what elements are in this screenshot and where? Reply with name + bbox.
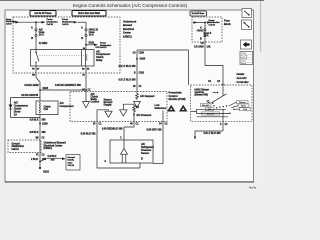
svg-text:Cell 10: Cell 10 — [209, 25, 216, 27]
svg-text:Center: Center — [123, 31, 131, 35]
svg-text:Relay: Relay — [96, 58, 103, 62]
wire clutch ground — [39, 115, 41, 141]
contact line 1 — [197, 108, 227, 110]
svg-text:12 RED: 12 RED — [39, 41, 48, 45]
svg-text:Cell 10: Cell 10 — [62, 24, 69, 26]
arrow fuse2 branch — [94, 44, 98, 47]
node fuse1 tap — [35, 21, 37, 23]
svg-text:S102: S102 — [89, 41, 95, 45]
svg-text:A: A — [31, 26, 33, 30]
svg-text:(UBEC): (UBEC) — [123, 34, 132, 38]
PCM 5v resistor — [133, 104, 136, 116]
arrow feed1 — [16, 21, 20, 24]
svg-text:Block: Block — [224, 22, 231, 26]
svg-text:Supply: Supply — [104, 103, 113, 107]
node fuse2 splice — [85, 44, 87, 46]
svg-text:4baTa: 4baTa — [249, 186, 257, 190]
diode D1 line — [10, 98, 12, 118]
svg-text:Cell 10: Cell 10 — [100, 47, 107, 49]
svg-text:Module (PCM): Module (PCM) — [169, 97, 186, 101]
PCM relay driver triangle — [83, 102, 90, 108]
svg-text:G102: G102 — [43, 170, 50, 174]
svg-text:Underhood: Underhood — [123, 20, 137, 24]
svg-text:Compressor: Compressor — [60, 104, 74, 108]
node relay sw contact — [35, 52, 36, 53]
svg-text:A/C Request: A/C Request — [140, 94, 154, 98]
svg-text:S105: S105 — [140, 57, 146, 61]
off leader — [207, 102, 211, 103]
page background — [0, 0, 264, 191]
arrow TR feed — [194, 21, 198, 24]
svg-text:C202: C202 — [139, 72, 145, 75]
vent box — [240, 108, 251, 111]
svg-text:C8 B: C8 B — [96, 47, 101, 49]
wire down to heater blower — [188, 50, 190, 85]
PCM request resistor — [136, 92, 139, 101]
arrow TR pd — [207, 21, 211, 24]
bilevel label box — [202, 112, 220, 115]
svg-text:Fuse: Fuse — [224, 19, 230, 23]
wire feed fuse2 — [78, 21, 87, 23]
wire diode branch bottom — [11, 117, 41, 119]
svg-text:350: 350 — [42, 130, 47, 134]
connector tick C1 — [222, 83, 225, 85]
svg-text:20 A: 20 A — [204, 34, 209, 38]
output loop wire — [195, 131, 223, 137]
center wire C200 column — [136, 50, 138, 92]
relay K1 box — [31, 50, 95, 67]
svg-text:Reference: Reference — [155, 106, 167, 110]
svg-text:B: B — [141, 157, 143, 161]
svg-text:Coil: Coil — [44, 108, 49, 111]
svg-text:0.35 DK GRN/WHT 459: 0.35 DK GRN/WHT 459 — [55, 83, 81, 87]
arrow pd text2 — [74, 21, 78, 24]
svg-text:C200: C200 — [139, 52, 145, 55]
svg-text:Bi-Level: Bi-Level — [207, 113, 215, 115]
svg-text:0.35 GRY 396: 0.35 GRY 396 — [146, 128, 162, 132]
contact line 2 — [197, 113, 230, 115]
svg-text:Controller: Controller — [237, 80, 249, 84]
node pcm 5v junction — [133, 114, 135, 116]
hot at all times TR label box — [190, 11, 207, 16]
svg-text:0.35 RED/BLK 380: 0.35 RED/BLK 380 — [102, 126, 123, 130]
svg-text:Cell 14: Cell 14 — [12, 148, 20, 151]
PCM interface triangles filled — [167, 105, 188, 112]
hot at all times label box — [30, 11, 56, 17]
svg-text:350: 350 — [42, 117, 47, 121]
svg-text:(UBEC): (UBEC) — [44, 146, 53, 150]
svg-text:B: B — [31, 36, 33, 40]
ref box ground distribution — [66, 155, 80, 171]
TR fuse — [204, 23, 206, 30]
defrost box — [237, 100, 249, 103]
svg-text:0.8 DK GRN 59: 0.8 DK GRN 59 — [21, 93, 38, 97]
PCM ground triangle — [105, 111, 112, 117]
wire pcm lowref to sensor — [162, 111, 164, 164]
arrowheads — [9, 21, 211, 160]
svg-text:Control: Control — [91, 99, 100, 103]
svg-text:5V: 5V — [136, 105, 139, 109]
svg-text:B: B — [81, 36, 83, 40]
svg-text:Hot In Run And Start: Hot In Run And Start — [78, 12, 100, 15]
svg-text:0.8 LT BLU 350: 0.8 LT BLU 350 — [119, 77, 137, 81]
relay coil partition — [85, 50, 87, 67]
svg-text:Norm: Norm — [241, 106, 246, 108]
svg-text:Off: Off — [207, 100, 210, 102]
svg-text:Defrost: Defrost — [239, 101, 246, 104]
hot in run label box — [72, 11, 106, 17]
svg-text:86: 86 — [83, 48, 85, 50]
PCM box — [70, 92, 167, 122]
UBEC box — [13, 17, 120, 73]
wire horiz to heater — [137, 49, 189, 51]
wire relay sw out — [35, 66, 37, 78]
svg-text:Cell 14: Cell 14 — [68, 164, 75, 167]
wire diode branch top — [11, 97, 41, 99]
svg-text:Distrib-: Distrib- — [68, 159, 75, 162]
legend mini table — [240, 52, 253, 65]
PCM sensor ground bracket — [97, 110, 109, 122]
wire TR fuse to heater — [205, 42, 223, 85]
svg-text:Heater: Heater — [237, 72, 245, 76]
svg-text:Cell 10: Cell 10 — [47, 24, 54, 26]
ac label box — [206, 108, 214, 111]
TR feed wire — [193, 22, 206, 24]
relay switch — [35, 50, 37, 53]
svg-text:Hot At All Times: Hot At All Times — [192, 12, 205, 15]
sensor symbol — [123, 140, 125, 148]
sensor box — [110, 140, 153, 163]
max ac box — [201, 103, 212, 106]
triangle marker 2 — [179, 105, 188, 112]
wire jog to clutch column — [36, 78, 40, 102]
svg-text:0.35 BLK 352: 0.35 BLK 352 — [81, 132, 97, 136]
contact line 3 — [197, 116, 229, 118]
svg-text:B: B — [200, 37, 202, 41]
scan top edge — [0, 0, 264, 2]
svg-text:And A/C: And A/C — [237, 76, 247, 80]
svg-text:Ground: Ground — [68, 157, 76, 159]
button zoom 2 — [242, 20, 252, 30]
wire pcm gnd to sensor — [97, 122, 140, 169]
svg-text:Hot At All Times: Hot At All Times — [35, 12, 53, 15]
clutch box — [36, 101, 58, 115]
svg-text:Vent: Vent — [243, 108, 247, 111]
svg-text:Sensor: Sensor — [241, 62, 247, 65]
heater wiper — [222, 85, 224, 96]
PCM request triangle — [134, 102, 141, 108]
relay actuator dotted link — [40, 55, 86, 57]
fuse block TR dashed box — [192, 17, 222, 42]
svg-text:ution: ution — [68, 161, 74, 164]
wire feed fuse1 — [13, 21, 43, 23]
arrow output loop end — [194, 137, 196, 140]
heater contact dots — [212, 103, 213, 104]
diode D1 symbol — [9, 105, 13, 109]
frame bottom emphasis — [5, 181, 254, 183]
svg-text:Sensor: Sensor — [141, 151, 149, 155]
node ground branch — [39, 161, 41, 163]
heater controller box — [191, 85, 253, 121]
node S105 — [136, 58, 138, 60]
PCM pressure triangle — [120, 110, 127, 116]
norm box — [238, 104, 249, 107]
svg-text:A: A — [81, 26, 83, 30]
arrow ground ref — [62, 157, 66, 160]
small texts — [6, 12, 249, 173]
svg-text:(Blower SW): (Blower SW) — [195, 94, 208, 97]
arrow to pd text1 — [42, 21, 46, 24]
fuse F1 A/C Fuse 10A — [35, 22, 37, 29]
svg-text:S150: S150 — [42, 121, 48, 125]
svg-text:Bussed: Bussed — [123, 23, 132, 27]
svg-text:Electrical: Electrical — [123, 27, 134, 31]
button back — [241, 40, 252, 49]
diode bar — [9, 108, 13, 110]
UBEC lower box — [8, 140, 41, 153]
svg-text:350: 350 — [51, 157, 56, 161]
svg-text:350: 350 — [42, 157, 47, 161]
node TR fuse tap — [204, 22, 206, 24]
scan right edge — [260, 1, 262, 52]
svg-text:Max A/C: Max A/C — [202, 104, 210, 107]
wire relay coil out — [85, 66, 87, 102]
svg-text:Cell 10: Cell 10 — [6, 23, 11, 25]
clutch coil arcs — [39, 103, 40, 113]
svg-text:0.8 BLK: 0.8 BLK — [30, 130, 39, 134]
triangle marker 1 — [167, 105, 176, 112]
left bracket — [191, 110, 197, 112]
svg-text:10 A: 10 A — [89, 33, 94, 37]
node S103 — [39, 89, 41, 91]
svg-text:S103: S103 — [43, 86, 49, 90]
svg-text:1A: 1A — [14, 112, 17, 116]
svg-text:0.8 DK GRN/: 0.8 DK GRN/ — [24, 83, 38, 87]
wire S103 branch — [40, 89, 86, 91]
svg-text:A/C Pressure: A/C Pressure — [136, 113, 152, 117]
wire splice branch to power dist — [86, 44, 94, 46]
svg-text:0.8 BLK: 0.8 BLK — [30, 117, 39, 121]
svg-text:2 BLK: 2 BLK — [31, 157, 38, 161]
svg-text:10 A: 10 A — [39, 33, 44, 37]
heater output wire — [222, 109, 224, 131]
heater blower leader — [213, 92, 217, 94]
svg-text:0.8 ORN: 0.8 ORN — [194, 45, 204, 49]
wire through UBEC lower — [39, 140, 41, 168]
svg-text:Engine Controls Schematics (A/: Engine Controls Schematics (A/C Compress… — [73, 3, 188, 8]
relay coil squiggle — [85, 54, 88, 61]
svg-text:141: 141 — [207, 45, 212, 49]
node G102 — [39, 167, 41, 169]
PCM pressure 5v line — [123, 104, 134, 110]
button zoom 1 — [242, 9, 252, 18]
node S150 — [39, 123, 41, 125]
wire pressure signal jog — [124, 115, 134, 141]
wire ground branch — [40, 159, 63, 162]
fuse F2 HVAC B Fuse — [85, 22, 87, 29]
node heater common — [217, 92, 219, 94]
UI buttons right margin — [240, 9, 253, 66]
svg-text:0.8 LT BLU 363: 0.8 LT BLU 363 — [204, 131, 222, 135]
svg-text:0.8 LT BLU 350: 0.8 LT BLU 350 — [119, 64, 137, 68]
